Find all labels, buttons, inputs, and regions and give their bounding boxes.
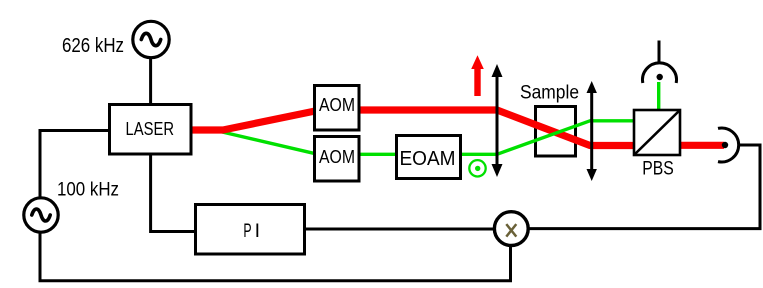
EOAM box xyxy=(397,136,461,179)
svg-text:AOM: AOM xyxy=(319,147,355,167)
oscillator 100 kHz xyxy=(24,198,58,232)
wire: LASER bottom to PI xyxy=(151,154,195,232)
wire: 100 kHz oscillator to mixer via bottom xyxy=(40,233,511,281)
svg-text:I: I xyxy=(255,220,260,242)
beam: green from PBS up to top detector xyxy=(657,82,660,110)
red polarization arrow (up) xyxy=(471,55,484,96)
svg-text:626 kHz: 626 kHz xyxy=(62,35,124,57)
wire: 626 kHz oscillator to LASER top xyxy=(149,59,152,105)
polarization symbol: green circled dot xyxy=(469,160,485,176)
beam: green from lower AOM through EOAM, sample, to PBS (over red) xyxy=(318,121,634,155)
svg-text:100 kHz: 100 kHz xyxy=(57,179,119,201)
PI box xyxy=(196,205,305,255)
beam: red from LASER through upper AOM to first lens xyxy=(191,110,497,130)
lens 2 (vertical double arrow) xyxy=(587,81,597,181)
mixer X xyxy=(494,212,528,246)
svg-text:LASER: LASER xyxy=(126,118,175,139)
svg-text:P: P xyxy=(243,220,251,242)
LASER box xyxy=(110,105,192,155)
sample box (outline drawn under beams) xyxy=(536,107,576,157)
svg-text:PBS: PBS xyxy=(642,159,674,180)
beam: red from first lens through sample to PBS (under green) xyxy=(497,110,634,146)
wire: PI to mixer xyxy=(305,228,493,231)
PBS box with diagonal xyxy=(634,110,680,155)
svg-text:EOAM: EOAM xyxy=(400,148,456,170)
svg-text:Sample: Sample xyxy=(520,83,579,104)
oscillator 626 kHz xyxy=(133,21,169,57)
top detector (photodiode dome) xyxy=(643,41,677,84)
svg-text:AOM: AOM xyxy=(319,95,355,115)
wire: right detector to mixer xyxy=(530,145,761,229)
right detector (photodiode dome) xyxy=(718,128,739,162)
AOM box (upper) xyxy=(315,86,360,131)
beam: green from LASER to lower AOM (under red) xyxy=(218,131,318,154)
lens 1 (vertical double arrow) xyxy=(492,64,503,177)
beam: red from PBS to right detector xyxy=(680,142,724,149)
wire: 100 kHz oscillator to LASER left xyxy=(40,131,109,198)
AOM box (lower) xyxy=(315,137,360,182)
